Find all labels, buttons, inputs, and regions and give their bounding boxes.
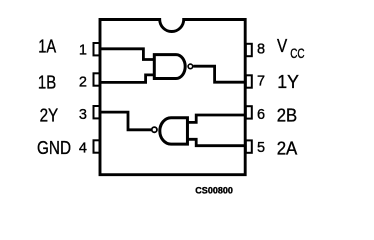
svg-text:7: 7 xyxy=(257,74,265,90)
svg-text:CC: CC xyxy=(290,46,305,61)
svg-text:1B: 1B xyxy=(38,73,56,94)
svg-text:2Y: 2Y xyxy=(40,106,59,127)
svg-text:6: 6 xyxy=(257,107,265,123)
svg-text:1A: 1A xyxy=(38,37,56,58)
svg-text:1: 1 xyxy=(79,42,87,58)
svg-text:2: 2 xyxy=(79,75,87,91)
svg-text:CS00800: CS00800 xyxy=(195,186,233,196)
svg-text:5: 5 xyxy=(257,140,265,156)
svg-text:1Y: 1Y xyxy=(277,72,299,93)
svg-text:4: 4 xyxy=(79,141,87,157)
svg-text:3: 3 xyxy=(79,107,87,123)
svg-text:8: 8 xyxy=(257,41,265,57)
svg-text:2B: 2B xyxy=(277,106,297,127)
svg-text:2A: 2A xyxy=(277,139,298,160)
svg-text:GND: GND xyxy=(37,138,71,159)
svg-text:V: V xyxy=(277,36,288,57)
